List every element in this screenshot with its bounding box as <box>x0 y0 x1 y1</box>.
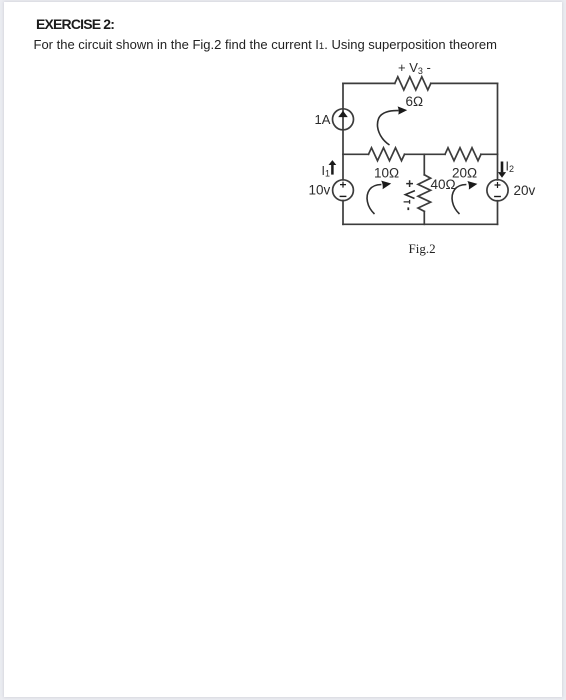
20v minus sign <box>494 196 501 198</box>
wire middle rail left <box>343 153 369 155</box>
svg-text:10Ω: 10Ω <box>374 166 399 181</box>
resistor 6ohm <box>395 77 431 90</box>
curved arrow near 10ohm <box>367 181 391 214</box>
label 40ohm V1 rotated <box>405 191 415 199</box>
svg-text:I2: I2 <box>506 160 515 175</box>
curved arrow near 6ohm <box>377 106 407 145</box>
wire middle rail center <box>405 153 446 155</box>
label 40ohm minus rotated <box>407 207 409 210</box>
voltage source 10v circle <box>333 180 354 201</box>
wire left below 10v <box>342 201 344 225</box>
resistor 10ohm <box>369 148 405 161</box>
wire bottom rail <box>343 223 498 225</box>
svg-text:20v: 20v <box>514 183 536 198</box>
wire left vertical <box>342 83 344 179</box>
current source 1A arrow <box>338 111 348 117</box>
svg-text:1A: 1A <box>315 112 331 127</box>
10v minus sign <box>340 195 347 197</box>
wire right below 20v <box>497 201 499 225</box>
svg-text:Fig.2: Fig.2 <box>409 241 436 256</box>
svg-text:40Ω: 40Ω <box>431 177 456 192</box>
wire top rail left <box>343 82 395 84</box>
wire top rail right <box>431 82 498 84</box>
20v plus sign <box>495 182 501 188</box>
wire middle branch lower <box>423 211 425 224</box>
resistor 20ohm <box>445 148 481 161</box>
voltage source 20v circle <box>487 180 508 201</box>
current arrow I2 <box>498 162 506 178</box>
svg-text:+ V3 -: + V3 - <box>398 60 431 76</box>
svg-text:10v: 10v <box>309 183 331 198</box>
svg-text:I1: I1 <box>322 164 331 179</box>
current arrow I1 <box>329 160 337 175</box>
10v plus sign <box>340 182 346 188</box>
resistor 40ohm vertical <box>418 175 431 212</box>
svg-text:20Ω: 20Ω <box>452 166 477 181</box>
label 40ohm plus <box>406 180 413 187</box>
current source 1A circle <box>333 109 354 130</box>
wire right vertical <box>497 83 499 179</box>
wire middle rail right <box>481 153 498 155</box>
curved arrow near 20ohm <box>452 181 477 214</box>
svg-text:6Ω: 6Ω <box>406 94 424 109</box>
wire middle branch upper <box>423 154 425 175</box>
